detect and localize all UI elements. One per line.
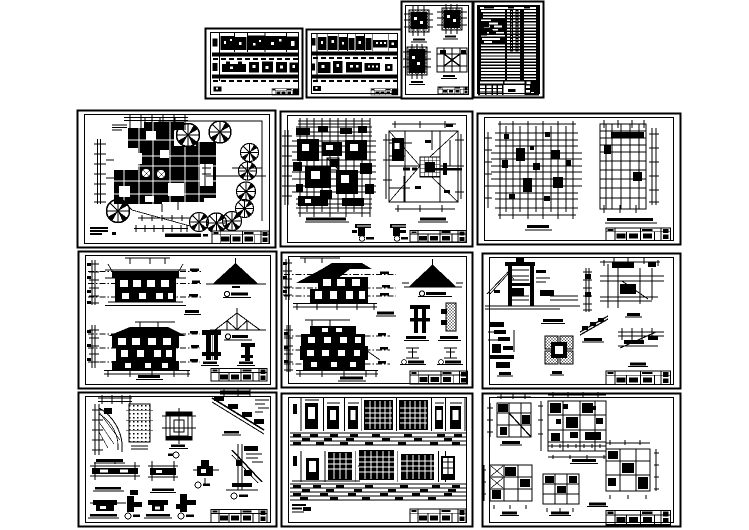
row2 figures — [293, 450, 455, 480]
title block H — [211, 369, 267, 382]
row1 blobs — [318, 36, 397, 50]
X mark center — [327, 158, 339, 170]
mid-right detail 2: hatched strip — [446, 303, 456, 331]
title block — [606, 228, 670, 240]
mid-left beam detail — [90, 466, 140, 476]
row2 base lines — [292, 466, 362, 481]
band row2 — [212, 75, 299, 79]
title block — [212, 231, 269, 243]
small interior circles — [142, 169, 151, 178]
level chain lines top elevation — [284, 275, 396, 297]
row1 schedule band — [290, 433, 466, 445]
sheet A content: detail elevations sheet — [212, 33, 299, 95]
sheet I border — [282, 253, 473, 388]
right marks — [526, 86, 534, 95]
right tall hatch detail — [238, 444, 242, 490]
key squares — [213, 39, 218, 47]
sheet B border — [307, 30, 402, 98]
left text column white rows — [481, 10, 505, 80]
middle vertical black bars with dots — [510, 10, 513, 52]
mid-right small detail — [197, 460, 213, 476]
center hatched detail — [545, 336, 573, 364]
title block L — [410, 509, 466, 523]
sheet J content: section and details — [485, 258, 670, 385]
sheet D content: schedule table — [478, 6, 539, 96]
hatched square right plan — [420, 157, 440, 177]
bottom-left plan — [490, 465, 532, 501]
left dim col — [283, 259, 292, 300]
left dim col — [285, 130, 288, 205]
right plan — [606, 449, 650, 491]
left grid of title — [480, 86, 502, 95]
row2 blobs — [318, 61, 393, 73]
TR detail — [437, 4, 467, 34]
long line to right — [206, 168, 266, 176]
legend top-left — [112, 125, 127, 130]
TR stair diagonal detail — [212, 398, 264, 430]
frame borders — [78, 2, 681, 527]
truss label — [225, 334, 230, 339]
bottom-mid column detail — [202, 330, 221, 360]
sheet M border — [483, 394, 681, 527]
title block J — [606, 371, 670, 385]
second small detail — [241, 343, 255, 361]
title area — [478, 81, 539, 96]
title block K — [211, 510, 267, 523]
band row1 — [212, 53, 299, 57]
bottom dim row — [134, 225, 188, 232]
mid-left stair detail — [490, 322, 514, 368]
left plan — [491, 126, 582, 212]
ticks around right plan — [600, 120, 646, 128]
top-right triangle — [409, 265, 456, 287]
right column rows — [524, 10, 536, 80]
row1 cell dividers — [301, 398, 465, 431]
ground line — [485, 306, 580, 309]
hatch X cells — [491, 466, 503, 488]
bottom elevation — [135, 322, 175, 327]
boundary lines — [158, 121, 262, 221]
gable solid triangle — [213, 263, 259, 284]
title block — [272, 89, 299, 96]
row1 blobs — [221, 36, 299, 51]
sheet H content: elevations — [87, 258, 267, 381]
left dim col top — [89, 260, 99, 305]
right dim col — [649, 128, 659, 205]
TL plan — [497, 403, 531, 437]
cell dividers row1 — [235, 33, 287, 52]
legend bottom-left — [292, 505, 306, 509]
top-center plan — [548, 401, 606, 451]
sheet E content: site plan with trees — [90, 115, 269, 243]
center white cell with black blob — [504, 85, 525, 95]
top-right beam detail — [600, 276, 664, 301]
section label — [543, 319, 563, 322]
level chain lines bottom elevation — [284, 336, 390, 364]
top elevation — [125, 258, 170, 264]
level chain lines top elevation — [88, 272, 203, 298]
labels — [607, 218, 653, 221]
bottom row details — [93, 500, 117, 511]
label bars — [306, 218, 346, 221]
TL arc detail — [98, 395, 132, 404]
caption — [165, 234, 201, 238]
level chain lines bottom elevation — [88, 334, 200, 362]
right plan — [600, 124, 646, 209]
middle column rows — [507, 10, 520, 80]
marks inside white hole — [202, 164, 211, 188]
two small details — [352, 224, 406, 236]
black text clusters in left col — [481, 21, 493, 36]
ticks bottom — [498, 212, 576, 219]
top elevation with roof slope — [300, 258, 340, 263]
bottom-right T details — [406, 348, 457, 358]
sheet F content: two floor plans — [282, 118, 466, 242]
right plan dims — [383, 134, 464, 199]
sheet M content: room detail plans — [482, 392, 670, 525]
black patches left plan — [293, 126, 374, 206]
sheet B content — [312, 34, 398, 95]
sheet I content: elevations 2 — [283, 258, 468, 384]
BR truss detail — [437, 48, 467, 72]
bottom ticks left plan — [298, 210, 370, 217]
sheet K border — [79, 393, 277, 527]
white holes in building — [119, 127, 213, 202]
left dim col bottom — [284, 325, 293, 372]
center-right diagonal stair — [580, 316, 608, 332]
ticks top — [498, 121, 576, 129]
left dim lines — [94, 139, 106, 204]
sheet L content: door-window schedule — [290, 398, 466, 523]
texture white gridlines over mass — [114, 122, 232, 204]
section top-left — [487, 270, 520, 294]
title block C — [438, 87, 468, 94]
bottom elevation — [305, 320, 350, 326]
right stair run — [618, 332, 664, 346]
label bottom elev — [138, 375, 160, 378]
grid glazing row1 (white lines on black) — [365, 401, 427, 429]
mid-right detail 1: jamb — [410, 305, 430, 333]
left dim col bottom — [89, 325, 99, 368]
TL detail — [404, 6, 433, 36]
mid-center detail — [148, 466, 178, 477]
top dim lines — [124, 115, 188, 131]
row2 cell dividers — [301, 451, 445, 482]
top-mid2 window detail — [166, 412, 192, 440]
sheet E border — [78, 111, 276, 248]
sheet K content: construction details — [88, 388, 269, 523]
left strip divider — [219, 33, 221, 81]
sheet D border — [474, 2, 544, 98]
sheet H border — [79, 252, 277, 389]
label top elev — [185, 310, 199, 313]
marks along center — [403, 124, 462, 193]
title block M — [606, 511, 670, 525]
sheet A border — [206, 29, 303, 99]
bottom-left mark — [214, 87, 222, 92]
bottom-center plan — [543, 474, 579, 504]
row2 schedule band — [290, 484, 466, 500]
narrow strip detail — [583, 268, 592, 312]
sheet G content: two lighter plans — [485, 120, 670, 240]
sheet C content: 4 framed joint details — [403, 4, 468, 94]
row1 figures — [293, 400, 461, 430]
sheet C border — [402, 2, 473, 99]
BL detail (tall) — [403, 44, 431, 79]
circled labels — [359, 236, 365, 242]
black patches — [502, 132, 571, 201]
legend bottom-left — [90, 228, 108, 234]
sheet L border — [282, 394, 473, 527]
sheet J border — [483, 254, 681, 389]
row2 blobs — [222, 62, 299, 73]
extension lines — [106, 118, 178, 212]
label — [377, 312, 394, 315]
right plan: roof — [389, 131, 458, 202]
top dim ticks left plan — [298, 121, 370, 124]
sheet G border — [478, 114, 681, 245]
diagonal path bottom-left — [118, 196, 190, 226]
gable label — [224, 291, 229, 296]
left dim — [485, 132, 492, 208]
title block — [410, 231, 466, 243]
header — [480, 7, 536, 9]
sheet F border — [281, 112, 473, 247]
truss triangle — [215, 313, 260, 330]
building mass — [114, 122, 216, 204]
trees — [177, 124, 200, 147]
top-mid dotted panel — [129, 404, 150, 442]
left plan grid — [292, 123, 376, 212]
title block I — [410, 371, 468, 384]
